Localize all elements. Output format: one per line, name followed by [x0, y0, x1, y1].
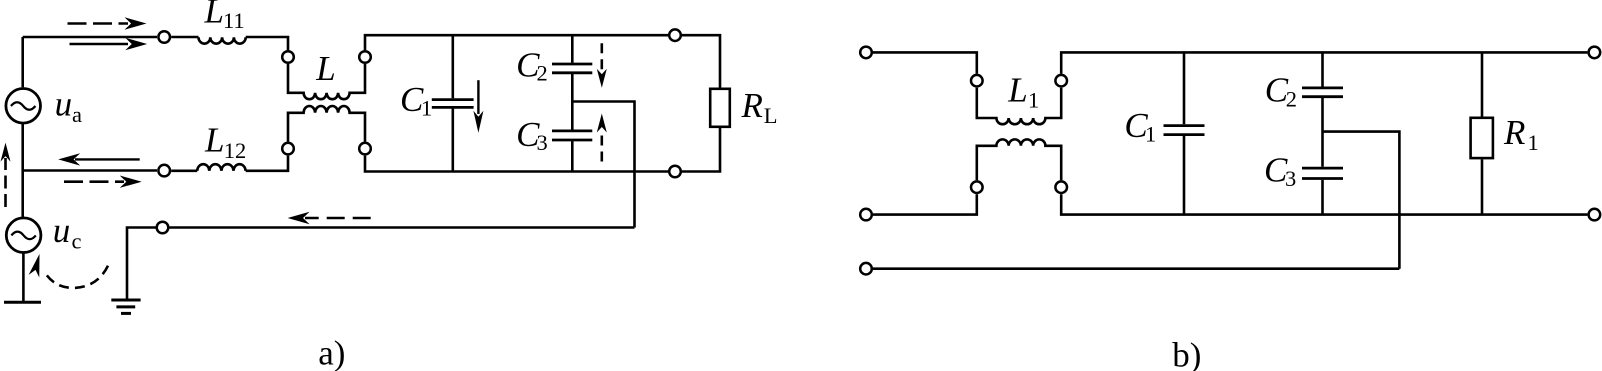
svg-text:a): a) — [318, 334, 345, 371]
svg-text:1: 1 — [1028, 88, 1039, 113]
svg-text:u: u — [53, 211, 70, 250]
svg-text:u: u — [55, 85, 73, 124]
svg-text:1: 1 — [1145, 122, 1156, 147]
svg-text:L: L — [764, 103, 778, 128]
svg-text:3: 3 — [537, 130, 548, 155]
svg-text:L: L — [315, 49, 335, 88]
svg-text:R: R — [741, 86, 763, 125]
svg-text:2: 2 — [1286, 86, 1297, 111]
svg-text:L: L — [204, 121, 224, 160]
svg-text:11: 11 — [223, 8, 245, 33]
svg-text:L: L — [1007, 71, 1027, 110]
svg-text:c: c — [72, 229, 82, 254]
svg-text:1: 1 — [1528, 130, 1539, 155]
svg-text:b): b) — [1172, 336, 1201, 371]
svg-text:3: 3 — [1285, 166, 1296, 191]
svg-text:12: 12 — [224, 138, 247, 163]
svg-text:a: a — [72, 102, 82, 127]
svg-text:L: L — [204, 0, 224, 31]
svg-text:R: R — [1503, 113, 1525, 152]
svg-text:1: 1 — [421, 95, 432, 120]
svg-text:2: 2 — [537, 60, 548, 85]
